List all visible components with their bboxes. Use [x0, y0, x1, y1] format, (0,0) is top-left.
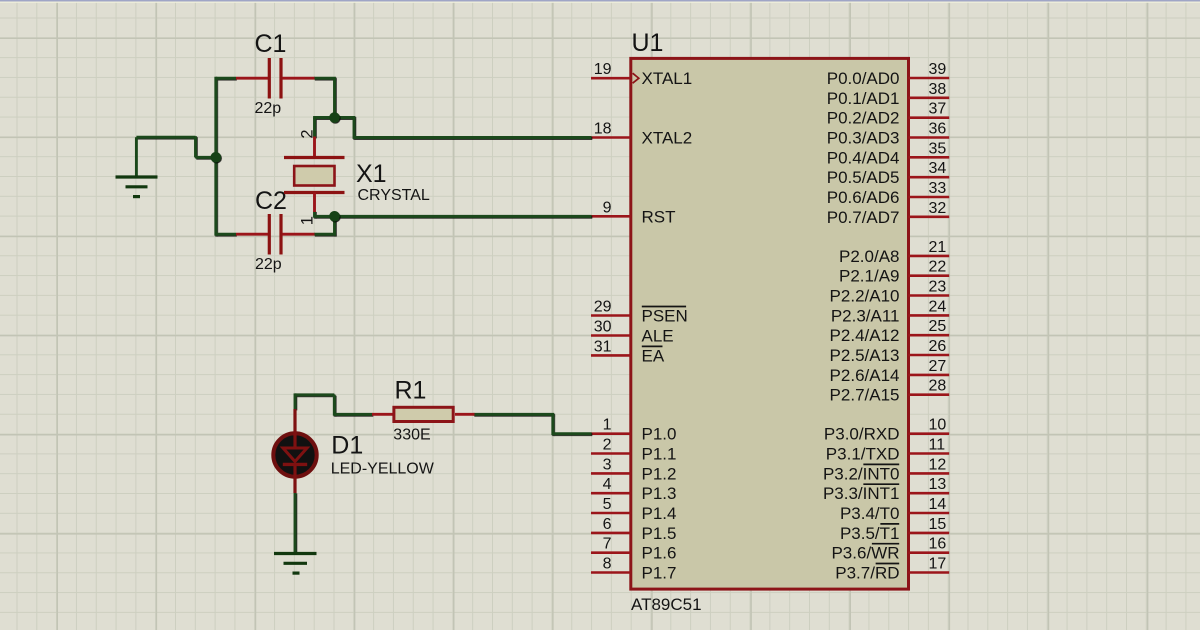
svg-text:C2: C2: [255, 187, 287, 215]
wire: step down to XTAL2 level: [353, 118, 356, 139]
pin 36 P0.3/AD3 (right): [827, 121, 949, 148]
wire: ground to trunk step (horizontal): [136, 136, 195, 139]
svg-text:16: 16: [929, 536, 947, 553]
wire: LED cathode to ground (vertical): [294, 493, 297, 554]
svg-text:XTAL1: XTAL1: [642, 69, 693, 88]
svg-text:7: 7: [603, 536, 612, 553]
svg-text:P0.2/AD2: P0.2/AD2: [827, 109, 900, 128]
pin 24 P2.3/A11 (right): [831, 298, 949, 325]
pin 6 P1.5 (left): [591, 516, 676, 543]
svg-text:P0.3/AD3: P0.3/AD3: [827, 129, 900, 148]
svg-text:LED-YELLOW: LED-YELLOW: [331, 460, 435, 477]
svg-text:P1.5: P1.5: [642, 524, 677, 543]
pin 35 P0.4/AD4 (right): [827, 140, 949, 167]
svg-text:5: 5: [603, 496, 612, 513]
svg-text:39: 39: [929, 61, 947, 78]
wire: R1 right lead to corner: [474, 413, 555, 416]
svg-text:P3.4/T0: P3.4/T0: [840, 504, 900, 523]
svg-text:27: 27: [929, 358, 947, 375]
svg-text:P0.0/AD0: P0.0/AD0: [827, 69, 900, 88]
junction node B (crystal bottom / C2 / RST): [329, 211, 340, 222]
LED D1: [273, 409, 316, 493]
wire: to XTAL2 pin 18: [354, 136, 592, 139]
pin 25 P2.4/A12 (right): [830, 318, 950, 345]
pin 21 P2.0/A8 (right): [839, 239, 949, 266]
pin 8 P1.7 (left): [591, 556, 676, 583]
junction node A (crystal top / C1 / XTAL2): [329, 112, 340, 123]
svg-text:CRYSTAL: CRYSTAL: [358, 187, 430, 204]
pin 3 P1.2 (left): [591, 456, 676, 483]
wire: crystal pin 2 drop (vertical): [313, 118, 316, 138]
svg-text:P2.1/A9: P2.1/A9: [839, 267, 900, 286]
svg-text:XTAL2: XTAL2: [642, 129, 693, 148]
svg-text:26: 26: [929, 338, 947, 355]
svg-text:D1: D1: [331, 431, 363, 459]
svg-text:P0.1/AD1: P0.1/AD1: [827, 89, 900, 108]
svg-text:23: 23: [929, 279, 947, 296]
svg-text:32: 32: [929, 200, 947, 217]
wire: corner down to node A: [333, 78, 336, 118]
pin 39 P0.0/AD0 (right): [827, 61, 949, 88]
svg-text:1: 1: [298, 216, 316, 225]
pin 33 P0.6/AD6 (right): [827, 180, 949, 207]
pin 9 RST (left): [591, 199, 676, 226]
svg-text:19: 19: [594, 61, 612, 78]
pin 30 ALE (left): [591, 319, 674, 346]
svg-text:P1.4: P1.4: [642, 504, 677, 523]
XTAL1 clock input marker: [633, 73, 639, 83]
svg-text:P1.2: P1.2: [642, 464, 677, 483]
svg-text:11: 11: [929, 437, 946, 454]
svg-text:P3.1/TXD: P3.1/TXD: [826, 445, 900, 464]
pin 34 P0.5/AD5 (right): [827, 160, 949, 187]
pin 38 P0.1/AD1 (right): [827, 81, 949, 108]
pin 10 P3.0/RXD (right): [824, 417, 949, 444]
svg-text:RST: RST: [642, 207, 676, 226]
wire: corner down to R1 level: [333, 395, 336, 416]
capacitor C1: [236, 58, 315, 99]
pin 15 P3.5/T1 (right): [840, 516, 949, 543]
svg-text:29: 29: [594, 299, 612, 316]
svg-text:24: 24: [929, 298, 947, 315]
svg-text:X1: X1: [356, 160, 387, 188]
pin 19 XTAL1 (left): [591, 61, 692, 88]
wire: C1 right lead to corner: [314, 77, 336, 80]
pin 14 P3.4/T0 (right): [840, 496, 949, 523]
pin 13 P3.3/INT1 (right): [823, 476, 949, 503]
resistor R1: [372, 407, 475, 421]
svg-text:P0.5/AD5: P0.5/AD5: [827, 168, 900, 187]
svg-text:22: 22: [929, 259, 947, 276]
pin 29 PSEN (left): [591, 299, 688, 326]
wire: node B to RST pin 9: [335, 215, 592, 218]
wire: trunk to C2 left lead: [216, 233, 236, 236]
svg-text:P2.7/A15: P2.7/A15: [830, 386, 900, 405]
svg-text:P1.7: P1.7: [642, 564, 677, 583]
svg-text:2: 2: [603, 437, 612, 454]
svg-text:2: 2: [298, 129, 316, 138]
svg-text:31: 31: [594, 338, 612, 355]
svg-text:P3.5/T1: P3.5/T1: [840, 524, 900, 543]
svg-text:330E: 330E: [393, 427, 430, 444]
svg-text:22p: 22p: [255, 100, 282, 117]
op-amp-style IC body: microcontroller U1 AT89C51: [631, 58, 909, 589]
svg-text:14: 14: [929, 496, 947, 513]
svg-text:P2.6/A14: P2.6/A14: [830, 366, 900, 385]
svg-text:34: 34: [929, 160, 947, 177]
capacitor C2: [236, 214, 315, 255]
wire: LED top corner to R1 corner: [295, 393, 334, 396]
svg-text:PSEN: PSEN: [642, 307, 688, 326]
pin 22 P2.1/A9 (right): [839, 259, 949, 286]
svg-text:17: 17: [929, 556, 947, 573]
svg-text:P0.6/AD6: P0.6/AD6: [827, 188, 900, 207]
wire: corner down to P1.0 level: [551, 414, 554, 435]
wire: step to junction (horizontal): [196, 156, 215, 159]
wire: LED anode riser (vertical): [294, 393, 297, 409]
svg-text:P3.0/RXD: P3.0/RXD: [824, 425, 900, 444]
svg-text:U1: U1: [632, 29, 664, 57]
svg-text:15: 15: [929, 516, 947, 533]
pin 4 P1.3 (left): [591, 476, 676, 503]
wire: ground step (vertical): [194, 136, 197, 157]
svg-text:12: 12: [929, 456, 947, 473]
ground (below LED D1): [274, 554, 317, 574]
wire: C2 right lead corner: [314, 233, 336, 236]
svg-text:P2.0/A8: P2.0/A8: [839, 247, 900, 266]
svg-text:P3.2/INT0: P3.2/INT0: [823, 464, 900, 483]
svg-text:4: 4: [603, 476, 612, 493]
crystal X1: [284, 137, 345, 213]
pin 18 XTAL2 (left): [591, 121, 692, 148]
pin 26 P2.5/A13 (right): [830, 338, 950, 365]
svg-text:P0.4/AD4: P0.4/AD4: [827, 148, 900, 167]
svg-text:8: 8: [603, 556, 612, 573]
svg-text:22p: 22p: [255, 256, 282, 273]
pin 12 P3.2/INT0 (right): [823, 456, 949, 483]
svg-text:P0.7/AD7: P0.7/AD7: [827, 208, 900, 227]
pin 32 P0.7/AD7 (right): [827, 200, 949, 227]
pin 2 P1.1 (left): [591, 437, 676, 464]
pin 5 P1.4 (left): [591, 496, 676, 523]
pin 17 P3.7/RD (right): [835, 556, 949, 583]
svg-text:R1: R1: [395, 377, 427, 405]
svg-text:6: 6: [603, 516, 612, 533]
svg-text:25: 25: [929, 318, 947, 335]
ground (top-left, oscillator): [116, 137, 158, 196]
wire: node A to crystal pin 2 (horizontal): [313, 116, 334, 119]
svg-text:P1.0: P1.0: [642, 425, 677, 444]
svg-text:P1.6: P1.6: [642, 544, 677, 563]
svg-text:36: 36: [929, 121, 947, 138]
svg-text:P2.5/A13: P2.5/A13: [830, 346, 900, 365]
svg-text:P2.2/A10: P2.2/A10: [830, 287, 900, 306]
svg-text:EA: EA: [642, 346, 665, 365]
svg-text:AT89C51: AT89C51: [631, 595, 702, 614]
svg-text:ALE: ALE: [642, 327, 674, 346]
pin 11 P3.1/TXD (right): [826, 437, 949, 464]
wire: C1-C2 left trunk (vertical): [214, 77, 217, 236]
wire: crystal pin 1 to node B: [315, 215, 335, 218]
svg-text:35: 35: [929, 140, 947, 157]
svg-text:P1.1: P1.1: [642, 445, 677, 464]
wire: C2 corner up to node B (vertical): [333, 216, 336, 235]
pin 16 P3.6/WR (right): [831, 536, 949, 563]
pin 27 P2.6/A14 (right): [830, 358, 950, 385]
svg-text:P2.3/A11: P2.3/A11: [831, 306, 900, 325]
svg-text:P1.3: P1.3: [642, 484, 677, 503]
svg-text:33: 33: [929, 180, 947, 197]
pin 1 P1.0 (left): [591, 417, 676, 444]
wire: to R1 left lead: [334, 413, 372, 416]
svg-text:13: 13: [929, 476, 947, 493]
pin 31 EA (left): [591, 338, 665, 365]
svg-text:1: 1: [603, 417, 612, 434]
svg-text:28: 28: [929, 378, 947, 395]
svg-text:C1: C1: [255, 30, 287, 58]
svg-text:37: 37: [929, 101, 947, 118]
svg-text:21: 21: [929, 239, 947, 256]
wire: crystal pin 1 rise (vertical): [313, 211, 316, 218]
wire: to P1.0 pin 1: [553, 432, 592, 435]
svg-text:38: 38: [929, 81, 947, 98]
svg-text:P3.7/RD: P3.7/RD: [835, 564, 899, 583]
svg-text:30: 30: [594, 319, 612, 336]
svg-text:P3.3/INT1: P3.3/INT1: [823, 484, 900, 503]
pin 28 P2.7/A15 (right): [830, 378, 950, 405]
wire: node A step right: [335, 116, 356, 119]
pin 23 P2.2/A10 (right): [830, 279, 950, 306]
svg-text:3: 3: [603, 456, 612, 473]
svg-text:P2.4/A12: P2.4/A12: [830, 326, 900, 345]
svg-text:P3.6/WR: P3.6/WR: [831, 544, 899, 563]
wire: trunk to C1 left lead: [216, 77, 236, 80]
svg-text:10: 10: [929, 417, 947, 434]
pin 7 P1.6 (left): [591, 536, 676, 563]
svg-text:18: 18: [594, 121, 612, 138]
svg-text:9: 9: [603, 199, 612, 216]
junction node C (ground / trunk): [211, 152, 222, 163]
pin 37 P0.2/AD2 (right): [827, 101, 949, 128]
